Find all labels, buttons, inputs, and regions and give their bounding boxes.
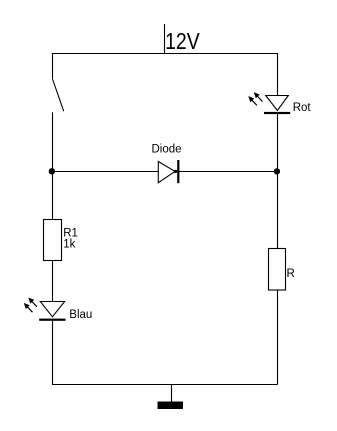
LED Rot triangle <box>266 96 289 111</box>
wire left vertical bottom <box>52 321 54 385</box>
diode D1 triangle <box>158 162 175 183</box>
switch S1 blade <box>53 79 64 111</box>
wire ground stub <box>171 385 173 403</box>
resistor R1 body <box>44 220 62 261</box>
LED Rot arrow 1 <box>248 96 257 105</box>
node junction left <box>49 168 55 174</box>
LED Blau cathode bar <box>39 319 65 321</box>
wire right vertical bottom <box>277 290 279 385</box>
wire right vertical top <box>277 53 279 96</box>
wire 12V stub <box>164 24 166 54</box>
wire left vertical upper <box>52 112 54 219</box>
wire middle left segment <box>52 171 158 173</box>
wire left top vertical <box>52 53 54 79</box>
wire middle right segment <box>178 171 278 173</box>
svg-text:1k: 1k <box>63 238 75 250</box>
LED Rot cathode bar <box>264 112 290 114</box>
node junction right <box>274 168 280 174</box>
svg-text:Diode: Diode <box>152 144 182 156</box>
svg-text:Blau: Blau <box>69 309 92 321</box>
wire right vertical mid <box>277 114 279 249</box>
diode D1 cathode bar <box>177 160 179 183</box>
ground symbol <box>158 402 184 410</box>
svg-text:12V: 12V <box>165 28 200 54</box>
wire bottom rail <box>52 384 278 386</box>
svg-text:R: R <box>287 268 295 280</box>
wire left vertical mid <box>52 261 54 302</box>
wire top rail <box>52 53 278 55</box>
LED Rot arrow 2 <box>254 92 263 101</box>
LED Blau arrow 1 <box>24 303 33 312</box>
resistor R body <box>269 249 286 291</box>
svg-text:Rot: Rot <box>293 102 312 114</box>
node diode apex dot <box>174 170 177 173</box>
LED Blau triangle <box>40 302 64 317</box>
LED Blau arrow 2 <box>28 298 37 307</box>
